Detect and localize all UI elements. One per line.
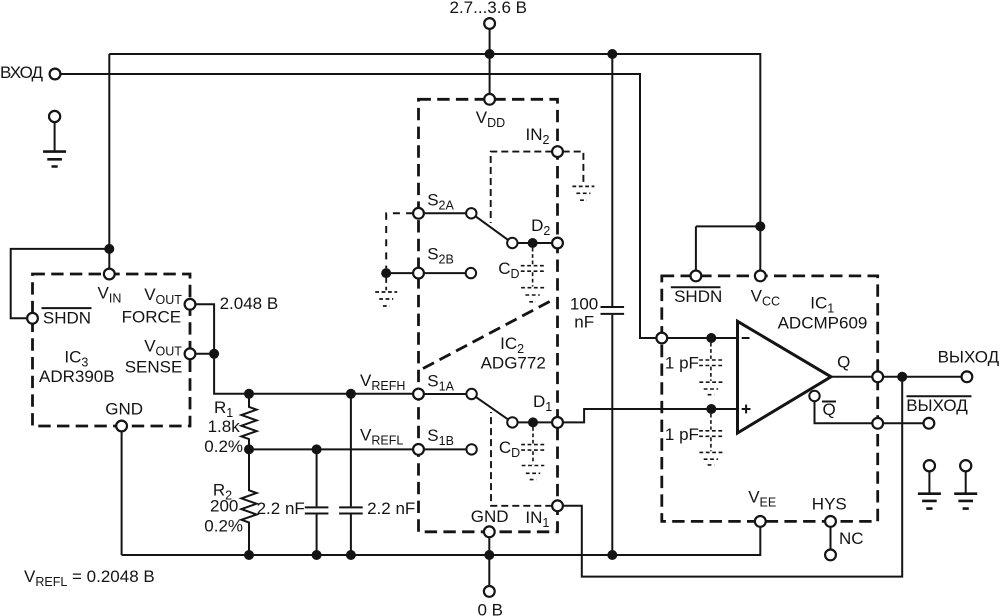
wire D2 line bbox=[518, 242, 553, 244]
pin SHDN IC1 bbox=[691, 271, 702, 282]
capacitor C 2.2nF left plates bbox=[305, 507, 329, 513]
node rail cap1 bbox=[312, 550, 322, 560]
wire IC3 GND stem bbox=[121, 431, 123, 555]
ground IN2 dashed bars bbox=[572, 186, 594, 200]
pin VEE IC1 bbox=[755, 516, 766, 527]
node rail cap2 bbox=[346, 550, 356, 560]
wire IC1 SHDN VCC tee bbox=[696, 226, 760, 270]
switch arm S1A to D1 bbox=[476, 397, 507, 419]
svg-text:GND: GND bbox=[105, 400, 143, 419]
terminal ground right 1 bbox=[924, 460, 935, 471]
pin VIN IC3 bbox=[104, 269, 115, 280]
resistor R1 bbox=[241, 394, 256, 450]
pin HYS IC1 bbox=[825, 516, 836, 527]
wire S2B ground lead dashed bbox=[385, 278, 387, 290]
node D1-CD junction bbox=[528, 417, 538, 427]
ground CD2 dashed bars bbox=[521, 288, 544, 302]
capacitor CD2 dashed stem bbox=[532, 248, 534, 265]
node rail R2 bbox=[244, 550, 254, 560]
minus input sign bbox=[742, 337, 750, 339]
wire D1 output to plus input bbox=[563, 409, 738, 422]
wire SHDN route IC3 bbox=[11, 249, 110, 318]
wire S1B stub bbox=[425, 448, 467, 450]
pin VCC IC1 bbox=[755, 271, 766, 282]
switch contact D1 end bbox=[507, 417, 517, 427]
inverted output circle Qbar bbox=[809, 391, 819, 401]
capacitor 1pF upper dashed plates bbox=[699, 360, 723, 366]
svg-text:2.7...3.6 В: 2.7...3.6 В bbox=[450, 0, 528, 17]
wire ground top-left stem bbox=[54, 123, 56, 152]
ground top-left symbol bbox=[43, 152, 66, 167]
node rail GND-0V bbox=[484, 550, 494, 560]
ground CD1 dashed bars bbox=[522, 466, 545, 480]
wire ground bottom-right stems bbox=[929, 471, 965, 494]
svg-text:ВЫХОД: ВЫХОД bbox=[906, 396, 968, 415]
svg-text:2.2 nF: 2.2 nF bbox=[257, 499, 305, 518]
svg-text:NC: NC bbox=[839, 529, 864, 548]
svg-text:1 pF: 1 pF bbox=[665, 425, 699, 444]
ground bottom-right symbol 1 bbox=[918, 494, 941, 509]
node SHDN-VCC junction bbox=[755, 221, 765, 231]
wire SENSE to VREFH rail bbox=[214, 354, 413, 394]
svg-text:200: 200 bbox=[210, 496, 238, 515]
pin VDD IC2 bbox=[484, 94, 495, 105]
pin S1A IC2 bbox=[413, 389, 424, 400]
wire S2A stub bbox=[425, 212, 466, 214]
terminal ground top-left bbox=[49, 111, 60, 122]
wire VOUT SENSE stub bbox=[195, 353, 214, 355]
capacitor 100nF plates bbox=[601, 307, 625, 314]
capacitor CD1 dashed stem bbox=[532, 427, 534, 443]
svg-text:0 В: 0 В bbox=[478, 600, 504, 616]
overline VYHOD-bar bbox=[907, 395, 972, 397]
wire D1 line bbox=[518, 421, 553, 423]
wire 100nF lower branch bbox=[611, 315, 613, 555]
capacitor 1pF lower lower stem bbox=[710, 437, 712, 451]
terminal 2.7-3.6V bbox=[484, 18, 495, 29]
pin minus IC1 bbox=[656, 333, 667, 344]
pin S2A IC2 bbox=[413, 208, 424, 219]
wire ground bottom rail to VEE bbox=[122, 527, 761, 555]
switch contact S1A pivot bbox=[466, 389, 476, 399]
capacitor 1pF upper lower stem bbox=[710, 367, 712, 381]
capacitor 1pF lower dashed plates bbox=[699, 431, 723, 437]
IC3 ADR390B box bbox=[33, 274, 191, 426]
node VREFH-R1 junction bbox=[244, 389, 254, 399]
svg-text:0.2%: 0.2% bbox=[204, 516, 243, 535]
wire VIN stem bbox=[108, 249, 110, 269]
overline SHDN IC3 bbox=[42, 307, 92, 309]
capacitor CD1 dashed lower stem bbox=[532, 451, 534, 464]
switch arm S2A to D2 bbox=[476, 217, 508, 240]
pin VOUT FORCE bbox=[185, 299, 196, 310]
node S2B ground tie bbox=[381, 268, 391, 278]
wire top supply rail to VCC bbox=[109, 54, 760, 271]
IC2 ADG772 box bbox=[419, 99, 558, 532]
ground 1pF lower dashed bars bbox=[699, 452, 722, 465]
ground bottom-right symbol 2 bbox=[954, 494, 977, 509]
wire IN1 control dashed bbox=[491, 412, 552, 506]
svg-text:ADG772: ADG772 bbox=[481, 354, 546, 373]
node SENSE junction bbox=[209, 349, 219, 359]
wire S2A to S2B tie dashed bbox=[386, 213, 413, 268]
capacitor C 2.2nF left stems bbox=[316, 449, 318, 555]
overline Qbar bbox=[822, 401, 836, 403]
pin IN1 IC2 bbox=[552, 500, 563, 511]
svg-text:1 pF: 1 pF bbox=[665, 354, 699, 373]
capacitor 1pF lower dashed stem bbox=[710, 414, 712, 430]
svg-text:Q: Q bbox=[837, 353, 850, 372]
IC2 section divider diagonal bbox=[423, 301, 552, 369]
switch contact S2B open bbox=[466, 268, 476, 278]
wire supply terminal stem to VDD bbox=[489, 29, 491, 94]
svg-text:1.8k: 1.8k bbox=[208, 417, 241, 436]
svg-text:Q: Q bbox=[823, 400, 836, 419]
wire VREFL rail bbox=[249, 448, 413, 450]
terminal VYHOD-bar bbox=[924, 418, 935, 429]
svg-text:100: 100 bbox=[570, 295, 598, 314]
switch contact S1B open bbox=[466, 444, 476, 454]
pin Q IC1 bbox=[872, 371, 883, 382]
pin IN2 IC2 bbox=[552, 146, 563, 157]
terminal 0V bbox=[484, 586, 495, 597]
pin S2B IC2 bbox=[413, 268, 424, 279]
node VREFL-cap junction bbox=[312, 444, 322, 454]
svg-text:ВХОД: ВХОД bbox=[0, 63, 44, 82]
plus input sign bbox=[742, 405, 751, 414]
terminal ground right 2 bbox=[960, 460, 971, 471]
wire 0V terminal stem bbox=[488, 537, 490, 586]
resistor R2 bbox=[241, 449, 256, 555]
capacitor 1pF upper dashed stem bbox=[710, 343, 712, 359]
svg-text:2.2 nF: 2.2 nF bbox=[367, 499, 415, 518]
node plus input junction bbox=[706, 404, 716, 414]
wire VOUT FORCE route bbox=[195, 304, 214, 354]
svg-text:0.2%: 0.2% bbox=[204, 437, 243, 456]
terminal VHOD bbox=[50, 69, 61, 80]
overline SHDN IC1 bbox=[671, 286, 721, 288]
switch contact D2 end bbox=[507, 238, 517, 248]
pin S1B IC2 bbox=[413, 444, 424, 455]
pin SHDN IC3 bbox=[27, 313, 38, 324]
node minus input junction bbox=[706, 333, 716, 343]
switch contact S2A pivot bbox=[466, 208, 476, 218]
node VIN junction bbox=[104, 244, 114, 254]
capacitor CD2 dashed plates bbox=[521, 266, 545, 272]
node VREFL-R1 junction bbox=[244, 444, 254, 454]
node supply-VDD junction bbox=[485, 49, 495, 59]
op-amp comparator U1 triangle bbox=[738, 321, 832, 433]
node rail 100nF bbox=[607, 550, 617, 560]
svg-text:SHDN: SHDN bbox=[43, 309, 91, 328]
svg-text:2.048 В: 2.048 В bbox=[220, 294, 279, 313]
wire IN2 control dashed bbox=[491, 152, 553, 223]
wire Qbar output bbox=[815, 401, 924, 423]
node Q output junction bbox=[897, 372, 907, 382]
capacitor CD1 dashed plates bbox=[521, 445, 545, 451]
svg-text:SENSE: SENSE bbox=[125, 357, 183, 376]
pin Qbar IC1 bbox=[872, 418, 883, 429]
pin GND IC2 bbox=[484, 526, 495, 537]
pin VOUT SENSE bbox=[185, 348, 196, 359]
wire VHOD input to minus input bbox=[61, 74, 657, 338]
svg-text:SHDN: SHDN bbox=[674, 287, 722, 306]
svg-text:ADR390B: ADR390B bbox=[39, 367, 115, 386]
wire S1A stub bbox=[425, 393, 467, 395]
svg-text:GND: GND bbox=[471, 507, 509, 526]
capacitor CD2 dashed lower stem bbox=[532, 272, 534, 286]
ground 1pF upper dashed bars bbox=[699, 382, 722, 395]
node D2-CD junction bbox=[528, 238, 538, 248]
svg-text:ВЫХОД: ВЫХОД bbox=[938, 348, 1000, 367]
wire 100nF upper branch bbox=[611, 54, 613, 306]
pin D2 IC2 bbox=[552, 238, 563, 249]
capacitor C 2.2nF right stems bbox=[350, 394, 352, 555]
svg-text:nF: nF bbox=[574, 312, 594, 331]
svg-text:FORCE: FORCE bbox=[122, 307, 182, 326]
wire minus input inside IC1 bbox=[667, 337, 737, 339]
wire IN2 ground lead dashed bbox=[563, 152, 584, 186]
wire S2B from dot bbox=[391, 272, 466, 274]
pin GND IC3 bbox=[116, 421, 127, 432]
wire HYS to NC bbox=[830, 527, 832, 550]
wire left supply vertical bbox=[108, 54, 110, 249]
node supply-100nF junction bbox=[607, 49, 617, 59]
IC1 ADCMP609 box bbox=[662, 276, 878, 522]
pin D1 IC2 bbox=[552, 417, 563, 428]
svg-text:ADCMP609: ADCMP609 bbox=[778, 314, 868, 333]
wire IN1 feedback from output bbox=[563, 377, 902, 577]
terminal VYHOD bbox=[962, 371, 973, 382]
svg-text:HYS: HYS bbox=[812, 494, 847, 513]
ground S2B dashed bars bbox=[375, 292, 397, 306]
wire Q output bbox=[831, 376, 962, 378]
node VREFH-cap junction bbox=[346, 389, 356, 399]
capacitor C 2.2nF right plates bbox=[339, 507, 363, 513]
terminal NC bbox=[825, 550, 836, 561]
